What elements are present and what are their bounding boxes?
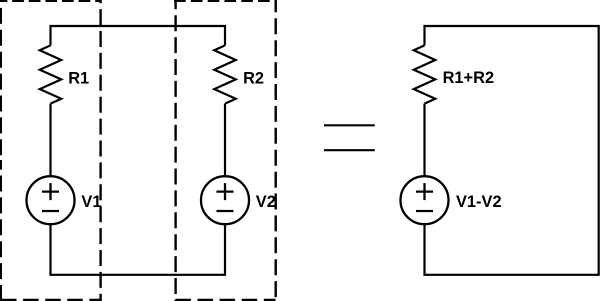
voltage source V1 bbox=[27, 176, 75, 224]
wire bottom (left loop) with V1 and V2 bottom leads bbox=[51, 224, 226, 274]
resistor R1 bbox=[40, 45, 62, 103]
voltage source V1-V2 bbox=[401, 176, 449, 224]
svg-text:V1-V2: V1-V2 bbox=[456, 193, 502, 211]
resistor R1+R2 bbox=[414, 45, 436, 103]
voltage source V2 bbox=[201, 176, 249, 224]
wire top, right side and bottom (right loop) bbox=[425, 26, 599, 275]
svg-text:V1: V1 bbox=[81, 193, 101, 211]
dashed box circuit 2 bbox=[174, 0, 277, 301]
wire top (left loop) with R1 and R2 top leads bbox=[51, 26, 226, 45]
equals sign bbox=[324, 125, 375, 150]
resistor R2 bbox=[214, 45, 236, 103]
svg-text:R1: R1 bbox=[68, 69, 89, 87]
svg-text:R2: R2 bbox=[243, 69, 264, 87]
wire R1 to V1 bbox=[49, 104, 51, 177]
svg-text:V2: V2 bbox=[256, 193, 276, 211]
dashed box circuit 1 bbox=[0, 0, 101, 301]
wire R1+R2 to source bbox=[423, 104, 425, 177]
wire R2 to V2 bbox=[224, 104, 226, 177]
svg-text:R1+R2: R1+R2 bbox=[443, 69, 494, 87]
